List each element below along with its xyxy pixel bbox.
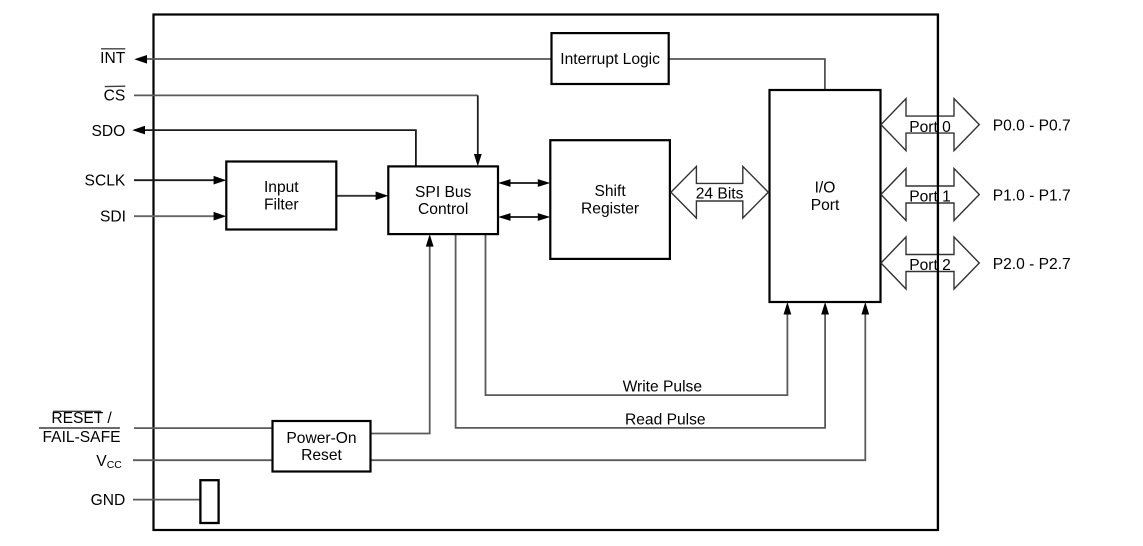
wire Interrupt Logic to I/O Port top xyxy=(669,59,825,90)
pin label VCC xyxy=(96,453,122,471)
bus arrow Port 2 xyxy=(881,237,979,289)
svg-text:P2.0 - P2.7: P2.0 - P2.7 xyxy=(993,256,1071,273)
wire Input Filter to SPI Bus Control xyxy=(336,192,388,201)
svg-text:Port 1: Port 1 xyxy=(909,189,951,206)
svg-text:Read Pulse: Read Pulse xyxy=(625,411,706,428)
bus arrow 24 Bits (Shift Register to I/O Port) xyxy=(671,166,768,218)
bus arrow Port 0 xyxy=(881,99,979,151)
svg-text:SPI Bus: SPI Bus xyxy=(415,184,472,201)
block SPI Bus Control xyxy=(388,166,498,234)
svg-text:24 Bits: 24 Bits xyxy=(696,185,744,202)
bus SPI Bus Control / Shift Register lower double arrow xyxy=(498,213,550,221)
svg-text:INT: INT xyxy=(100,50,126,67)
svg-text:Power-On: Power-On xyxy=(286,430,356,447)
svg-text:Port: Port xyxy=(811,197,840,214)
pin label FAIL-SAFE with overline xyxy=(39,428,121,446)
svg-text:Port 0: Port 0 xyxy=(909,119,951,136)
bus SPI Bus Control / Shift Register upper double arrow xyxy=(498,179,550,187)
chip boundary rectangle xyxy=(154,15,939,531)
block I/O Port xyxy=(770,90,881,302)
svg-text:Filter: Filter xyxy=(264,196,299,213)
svg-text:SDO: SDO xyxy=(92,123,126,140)
wire Power-On Reset to SPI Bus Control xyxy=(371,234,434,433)
bus arrow Port 1 xyxy=(881,169,979,221)
wire Write Pulse (SPI Bus Control to I/O Port) xyxy=(486,234,792,395)
block Shift Register xyxy=(550,140,670,259)
svg-text:Register: Register xyxy=(581,200,639,217)
wire SDI to Input Filter xyxy=(134,212,226,221)
wire INT (Interrupt Logic to INT pin) xyxy=(134,55,551,64)
svg-text:SCLK: SCLK xyxy=(85,172,126,189)
svg-text:P0.0 - P0.7: P0.0 - P0.7 xyxy=(993,117,1071,134)
pin label INT with overline xyxy=(100,49,126,67)
svg-text:Control: Control xyxy=(418,201,468,218)
block Power-On Reset xyxy=(273,421,371,472)
svg-text:Port 2: Port 2 xyxy=(909,257,951,274)
pin label RESET / with overline over RESET xyxy=(51,410,112,427)
svg-text:FAIL-SAFE: FAIL-SAFE xyxy=(43,429,121,446)
wire RESET/FAIL-SAFE to Power-On Reset xyxy=(134,427,273,429)
wire CS to SPI Bus Control top xyxy=(134,95,482,166)
wire SDO from SPI Bus Control top xyxy=(132,126,416,167)
svg-text:Reset: Reset xyxy=(301,447,342,464)
block Interrupt Logic xyxy=(552,33,669,84)
svg-text:Interrupt Logic: Interrupt Logic xyxy=(560,51,660,68)
wire SCLK to Input Filter xyxy=(134,176,226,185)
svg-text:CS: CS xyxy=(104,88,126,105)
svg-text:GND: GND xyxy=(91,492,126,509)
svg-text:Input: Input xyxy=(264,179,299,196)
svg-text:RESET /: RESET / xyxy=(51,410,112,427)
block Input Filter xyxy=(226,162,336,230)
pin label CS with overline xyxy=(104,86,126,105)
wire Read Pulse (SPI Bus Control to I/O Port) xyxy=(456,234,829,428)
svg-text:I/O: I/O xyxy=(815,180,836,197)
svg-text:Write Pulse: Write Pulse xyxy=(623,379,702,396)
chip boundary right edge segment over port arrows xyxy=(937,15,939,531)
svg-text:Shift: Shift xyxy=(594,183,626,200)
GND pin pad rectangle xyxy=(200,480,218,523)
svg-text:SDI: SDI xyxy=(100,209,126,226)
wire VCC to Power-On Reset and I/O Port xyxy=(133,302,869,460)
svg-text:P1.0 - P1.7: P1.0 - P1.7 xyxy=(993,187,1071,204)
wire GND xyxy=(133,499,200,501)
